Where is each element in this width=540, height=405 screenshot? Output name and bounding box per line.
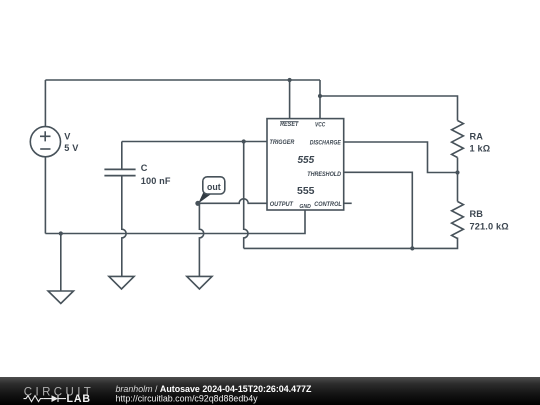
node dot threshold/bottom bus bbox=[410, 246, 414, 250]
wire out flag to ground3 with hop over bus bbox=[199, 203, 203, 276]
node dot VCC/RA branch bbox=[318, 94, 322, 98]
wire bottom bus to GND pin bbox=[45, 210, 305, 234]
wire capacitor top lead bbox=[121, 142, 123, 170]
op-amp U1 555 timer box bbox=[267, 119, 352, 210]
svg-text:VCC: VCC bbox=[315, 121, 325, 128]
svg-text:RB: RB bbox=[470, 209, 484, 219]
wire top bus bbox=[45, 79, 320, 81]
wire trigger net horizontal bbox=[122, 141, 267, 143]
ground 2 bbox=[109, 276, 134, 289]
logo CIRCUIT LAB bbox=[24, 387, 95, 405]
wire V+ up lead bbox=[44, 80, 46, 127]
wire V- down lead bbox=[44, 157, 46, 234]
wire trigger vertical with hop over bus bbox=[244, 142, 248, 249]
footer bar bbox=[0, 377, 540, 405]
resistor RB bbox=[452, 202, 464, 239]
svg-text:TRIGGER: TRIGGER bbox=[270, 139, 295, 146]
node dot ground1 branch bbox=[59, 231, 63, 235]
node dot out terminal bbox=[195, 201, 200, 206]
wire bottom right bus bbox=[244, 238, 458, 249]
wire OUTPUT pin with hop over trigger vertical bbox=[198, 199, 267, 203]
svg-text:DISCHARGE: DISCHARGE bbox=[310, 139, 342, 146]
svg-text:LAB: LAB bbox=[67, 393, 91, 405]
voltage source V bbox=[30, 127, 60, 157]
svg-text:GND: GND bbox=[299, 204, 311, 210]
svg-text:out: out bbox=[207, 182, 221, 192]
svg-text:100 nF: 100 nF bbox=[141, 176, 171, 186]
svg-text:THRESHOLD: THRESHOLD bbox=[307, 171, 341, 178]
svg-text:721.0 kΩ: 721.0 kΩ bbox=[470, 221, 509, 231]
svg-text:V: V bbox=[64, 132, 71, 142]
svg-text:http://circuitlab.com/c92q8d88: http://circuitlab.com/c92q8d88edb4y bbox=[116, 393, 259, 403]
wire capacitor bottom lead with hop over bus bbox=[122, 176, 126, 277]
ground 1 bbox=[48, 291, 73, 304]
svg-text:C: C bbox=[141, 163, 148, 173]
pin stub CONTROL bbox=[344, 202, 352, 204]
pin label RESET with overline bbox=[280, 121, 299, 128]
logo resistor zigzag and diode doodle bbox=[24, 395, 67, 402]
node flag out bbox=[198, 177, 225, 204]
svg-text:555: 555 bbox=[297, 185, 315, 197]
svg-text:555: 555 bbox=[298, 155, 315, 166]
node dot trigger branch bbox=[242, 139, 246, 143]
wire DISCHARGE to RA-RB node bbox=[344, 142, 458, 173]
svg-text:1 kΩ: 1 kΩ bbox=[470, 144, 491, 154]
svg-text:OUTPUT: OUTPUT bbox=[270, 201, 294, 208]
wire VCC node to RA bbox=[320, 96, 458, 121]
resistor RA bbox=[452, 121, 464, 158]
wire RA to RB bbox=[457, 158, 459, 202]
svg-text:5 V: 5 V bbox=[64, 143, 79, 153]
svg-text:CONTROL: CONTROL bbox=[314, 201, 342, 208]
wire VCC drop bbox=[319, 80, 321, 119]
wire ground1 stub bbox=[60, 234, 62, 292]
ground 3 bbox=[187, 276, 212, 289]
wire RESET drop bbox=[289, 80, 291, 119]
wire THRESHOLD to bottom bbox=[344, 172, 413, 248]
capacitor C bbox=[104, 169, 135, 175]
node dot RESET/top bus bbox=[288, 78, 292, 82]
node dot RA-RB/discharge bbox=[455, 170, 459, 174]
svg-text:RA: RA bbox=[470, 131, 484, 141]
